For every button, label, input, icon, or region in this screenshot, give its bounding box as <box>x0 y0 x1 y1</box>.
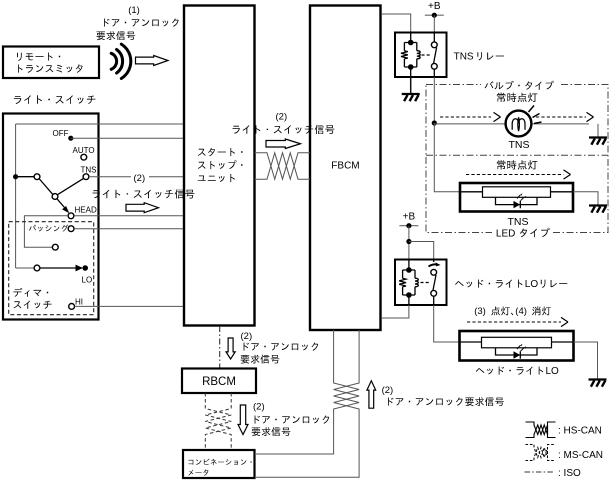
arrow door-unlock to RBCM <box>226 338 235 359</box>
svg-text:TNS: TNS <box>509 139 530 151</box>
wire LO row <box>16 267 34 269</box>
svg-text:OFF: OFF <box>53 129 69 138</box>
ISO line SSU to RBCM <box>219 326 221 368</box>
label door-unlock meter line2 <box>252 427 291 436</box>
contact arm B <box>52 194 58 200</box>
relay TNS box <box>395 33 447 78</box>
lamp headlight-LO box <box>460 331 574 361</box>
svg-text:LED: LED <box>496 229 515 240</box>
switch arm B-TNS <box>58 178 84 194</box>
wire bulb to ground <box>597 124 599 137</box>
box start-stop unit <box>184 6 255 326</box>
text headlight LO relay label kana2 <box>541 280 568 288</box>
svg-text:HI: HI <box>75 297 83 306</box>
label door-unlock request signal line1 <box>104 19 179 27</box>
wire +B to LO contact <box>409 242 434 260</box>
text combination meter line1 <box>188 459 251 465</box>
ground TNS relay <box>402 93 420 95</box>
box RBCM <box>182 369 256 394</box>
svg-text:LO: LO <box>546 366 560 377</box>
svg-text:RBCM: RBCM <box>202 376 236 388</box>
text SSU line1 <box>198 148 243 156</box>
dash-dot box bulb/LED type <box>426 85 608 233</box>
label door-unlock request signal line2 <box>97 31 136 40</box>
svg-text:(1): (1) <box>128 5 140 16</box>
diode LED TNS <box>514 201 521 208</box>
contact arm A <box>34 174 40 180</box>
label door-unlock meter line1 <box>255 416 330 424</box>
wire LED branch <box>496 197 538 204</box>
twisted pair HS-CAN between SSU and FBCM <box>255 153 311 179</box>
ground TNS bulb <box>589 136 607 138</box>
wire HEAD to passing branch <box>24 216 68 247</box>
wire lamp LED branch <box>496 348 538 355</box>
relay LO contact with arrow <box>433 260 435 263</box>
text SSU line3 <box>198 174 235 182</box>
label (3) tentou <box>491 307 513 316</box>
ground TNS LED <box>589 204 607 206</box>
svg-text:: MS-CAN: : MS-CAN <box>558 450 603 461</box>
wire TNS relay coil to ground <box>410 77 412 94</box>
junction switch pivot <box>13 174 18 179</box>
wire common feed to SSU <box>16 123 184 125</box>
wire inside lamp left <box>460 341 482 343</box>
wire junction down to LED <box>434 123 459 192</box>
contact passing branch <box>52 244 58 250</box>
svg-text:+B: +B <box>428 1 441 12</box>
label always-on upper <box>497 93 537 103</box>
label light switch signal lower <box>93 189 195 198</box>
contact LO pivot <box>34 265 40 271</box>
wire inside LED left <box>460 191 483 193</box>
svg-text:: ISO: : ISO <box>558 468 581 479</box>
svg-text:TNS: TNS <box>81 165 97 174</box>
bulb TNS <box>506 111 532 137</box>
contact OFF <box>68 136 73 141</box>
dashed box dimmer/passing switch <box>9 222 94 315</box>
wire inside lamp right <box>552 341 574 343</box>
ground headlight-LO <box>589 378 607 380</box>
label light switch signal upper <box>233 125 335 134</box>
svg-text:(3): (3) <box>474 306 486 317</box>
text combination meter line2 <box>188 469 208 475</box>
wire +B to TNS relay contact <box>433 15 435 32</box>
box FBCM <box>310 6 381 331</box>
svg-text:(4): (4) <box>515 306 527 317</box>
wire +B LO down <box>408 226 410 260</box>
legend ISO symbol <box>525 471 555 473</box>
arrow door-unlock to FBCM <box>367 381 376 408</box>
svg-text:: HS-CAN: : HS-CAN <box>558 425 602 436</box>
switch arm A-B <box>39 179 53 195</box>
svg-text:(2): (2) <box>241 331 253 342</box>
contact AUTO <box>81 154 87 160</box>
legend MS-CAN symbol <box>526 445 556 461</box>
svg-text:(2): (2) <box>253 402 265 413</box>
wire passing to SSU <box>74 228 184 230</box>
legend HS-CAN symbol <box>526 422 556 438</box>
text passing <box>29 225 68 232</box>
arrow door-unlock to meter <box>238 405 248 435</box>
svg-text:+B: +B <box>403 212 416 223</box>
dashed arrow headlight LO <box>467 321 561 323</box>
dash-dot divider <box>426 154 608 156</box>
relay headlight-LO coil+resistor <box>399 270 418 295</box>
relay TNS contact <box>433 33 435 42</box>
label (4) shoutou <box>532 306 551 315</box>
wire TNS to SSU <box>89 176 184 178</box>
wire HI to SSU <box>75 305 184 307</box>
svg-text:(2): (2) <box>382 385 394 396</box>
text headlight LO relay label kana1 <box>455 280 522 288</box>
label light switch <box>14 95 96 104</box>
text SSU line2 <box>198 160 243 169</box>
contact HI <box>69 304 75 310</box>
svg-text:LO: LO <box>525 279 539 290</box>
junction TNS feed <box>432 120 437 125</box>
HS-CAN twisted pair FBCM to meter <box>255 330 360 454</box>
text remote line1 <box>17 53 60 61</box>
svg-text:(2): (2) <box>276 112 288 123</box>
dashed arrow always-on lower <box>466 174 564 176</box>
wire to TNS bulb <box>434 123 589 125</box>
LO contact arrowhead and dot <box>76 265 84 272</box>
wire OFF to SSU <box>71 137 184 139</box>
svg-text:FBCM: FBCM <box>331 161 359 172</box>
label door-unlock fbcm <box>388 397 504 406</box>
contact passing out <box>68 226 74 232</box>
relay TNS coil+resistor <box>401 43 420 68</box>
wire pivot to arm <box>16 176 34 178</box>
resistor in TNS LED <box>483 187 551 198</box>
wire lamp to ground <box>574 342 598 379</box>
svg-text:HEAD: HEAD <box>75 205 97 214</box>
wire LED to ground <box>573 192 598 205</box>
svg-text:LO: LO <box>82 275 93 284</box>
relay LO coil wires and dots <box>408 260 410 306</box>
relay TNS coil wires and dots <box>410 33 412 78</box>
text TNS relay label kana <box>477 52 504 60</box>
box remote transmitter <box>3 47 99 79</box>
radio wave symbol <box>111 53 116 69</box>
diode LED headlight-LO <box>514 351 521 358</box>
box combination meter <box>183 450 255 478</box>
label door-unlock rbcm line1 <box>244 343 319 351</box>
bulb rays <box>529 106 542 124</box>
wire common feed vertical <box>15 124 17 268</box>
svg-text:(2): (2) <box>134 173 146 184</box>
relay headlight-LO box <box>395 260 447 306</box>
switch arm B-HEAD with arrowhead <box>57 199 65 208</box>
svg-text:TNS: TNS <box>508 216 529 228</box>
junction +B LO <box>406 239 411 244</box>
arrow light switch signal lower <box>126 203 159 213</box>
label always-on lower <box>497 160 537 170</box>
wire inside LED right <box>551 191 574 193</box>
wire LO arm <box>40 267 77 269</box>
text dimmer switch line1 <box>13 288 48 297</box>
dashed arrow after bulb <box>536 116 586 118</box>
lamp TNS LED box <box>460 183 573 212</box>
contact TNS <box>83 174 89 180</box>
dashed arrow always-on upper <box>440 116 491 118</box>
wire LO relay coil to FBCM <box>381 305 409 318</box>
wire LO relay contact to lamp <box>434 305 459 342</box>
resistor in headlight-LO <box>482 337 552 348</box>
label bulb type <box>485 81 554 90</box>
wire FBCM to TNS relay coil <box>381 14 411 33</box>
arrow remote signal <box>136 56 169 66</box>
svg-text:TNS: TNS <box>454 52 474 63</box>
wire TNS relay contact down <box>433 77 435 123</box>
text remote line2 <box>18 64 83 72</box>
arrow light switch signal upper <box>266 139 301 149</box>
MS-CAN dashed twisted pair RBCM to meter <box>205 393 231 450</box>
label door-unlock rbcm line2 <box>241 355 280 364</box>
box light switch <box>3 114 99 320</box>
contact HEAD <box>68 213 74 219</box>
label LED type kana <box>520 228 550 238</box>
text dimmer switch line2 <box>14 301 52 309</box>
text headlight LO label kana <box>476 367 543 375</box>
wire HEAD to SSU <box>74 215 184 217</box>
